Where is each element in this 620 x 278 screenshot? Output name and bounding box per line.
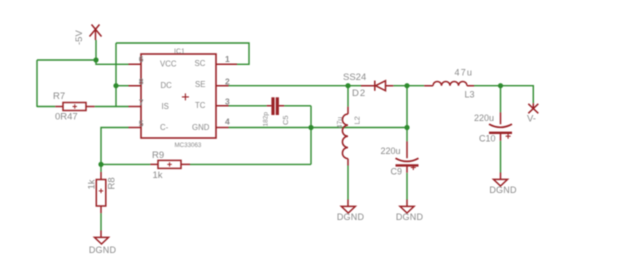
capacitor C5 [267,97,284,115]
svg-text:MC33063: MC33063 [175,142,202,149]
wire rail down left [36,60,38,107]
ground DGND (C10) [494,173,508,187]
svg-text:L2: L2 [353,116,362,124]
wire node to R8 [100,164,102,172]
wire diode node down [406,86,408,142]
wire rail to R7 [37,106,55,108]
wire diode to L3 [393,85,424,87]
IC1 pin stubs right [216,64,237,127]
capacitor C9 [396,141,419,172]
svg-text:DGND: DGND [337,212,365,222]
svg-text:7: 7 [139,97,144,107]
supply -5V arrow [90,25,102,41]
svg-text:DGND: DGND [89,245,117,255]
svg-text:182p: 182p [263,112,270,127]
wire C10 to DGND [500,141,502,173]
wire R7 to pin7 [95,106,129,108]
wire R8 to DGND [100,213,102,230]
IC1 pin stubs left [129,64,142,127]
svg-text:47u: 47u [455,68,474,78]
svg-text:3: 3 [225,96,230,106]
wire R9 to x311 [190,163,311,165]
wire pin8 DC [116,85,129,87]
junction pin4 node [308,125,313,130]
svg-text:SS24: SS24 [343,72,366,83]
svg-text:R9: R9 [152,150,164,161]
svg-text:5: 5 [139,118,144,128]
svg-text:TC: TC [195,101,206,110]
svg-text:DC: DC [161,81,173,90]
wire -5V to junction [95,40,97,60]
svg-text:220u: 220u [474,113,494,123]
ground DGND (R8) [95,231,109,245]
svg-text:220u: 220u [381,146,401,156]
junction DC node [113,83,118,88]
svg-text:8: 8 [139,76,144,86]
junction output node [404,125,409,130]
ground DGND (C9) [400,200,414,214]
IC1 MC33063 body [141,54,216,138]
inductor L3 [424,81,474,85]
junction -5V node [93,57,98,62]
wire C10 node down [500,86,502,113]
svg-text:1k: 1k [87,179,98,189]
svg-text:4: 4 [225,116,230,126]
resistor R8 [96,172,106,213]
svg-text:2: 2 [225,76,230,86]
wire pin3 TC to C5 [229,105,267,107]
wire L2 to DGND [347,166,349,200]
svg-text:V-: V- [527,113,536,124]
svg-text:0R47: 0R47 [55,112,78,123]
svg-text:1k: 1k [153,170,163,181]
svg-text:GND: GND [192,123,210,132]
supply V- arrow [528,103,538,113]
ground DGND (L2) [341,200,355,214]
capacitor C10 [489,112,512,140]
svg-text:1: 1 [225,54,230,64]
svg-text:IC1: IC1 [174,49,185,56]
wire x311 vertical [310,106,312,165]
svg-text:L3: L3 [465,89,475,99]
wire pin5 C- [101,128,129,165]
wire C5 to x311 [284,105,311,107]
svg-text:IS: IS [162,102,169,111]
svg-text:C5: C5 [281,115,290,125]
inductor L2 [342,107,348,166]
svg-text:C9: C9 [391,167,403,177]
svg-text:R7: R7 [53,91,65,102]
wire rail left [37,59,96,61]
svg-text:-5V: -5V [74,30,85,45]
svg-text:D2: D2 [352,88,366,99]
junction feedback node [98,162,103,167]
svg-text:47u: 47u [337,117,344,129]
wire pin2 SE [229,85,362,87]
svg-text:C10: C10 [479,134,496,144]
diode D2 [361,81,393,91]
svg-text:VCC: VCC [160,60,177,69]
wire SC/DC/IS vertical [115,43,117,107]
svg-text:R8: R8 [107,177,118,189]
junction C10 node [498,83,503,88]
wire switch node to L2 [347,86,349,107]
svg-text:6: 6 [139,54,144,64]
IC1 origin cross [182,93,189,100]
resistor R7 [55,103,94,111]
junction diode anode node [404,83,409,88]
wire pin4 GND row [229,127,408,129]
svg-text:DGND: DGND [396,212,424,222]
svg-text:C-: C- [160,123,169,132]
wire VCC pin6 [96,60,129,64]
wire C9 to DGND [406,173,408,200]
wire node to R9 [101,163,150,165]
svg-text:SC: SC [195,59,206,68]
svg-text:SE: SE [195,80,205,89]
junction switch node [345,83,350,88]
wire top loop [116,43,249,64]
svg-text:DGND: DGND [489,185,517,195]
wire L3 to V- corner [474,86,533,104]
resistor R9 [150,160,190,168]
